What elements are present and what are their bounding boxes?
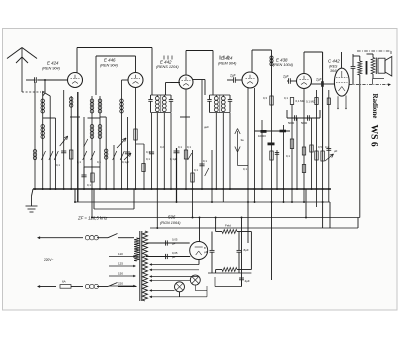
svg-text:364): 364) — [330, 69, 337, 73]
svg-text:3a: 3a — [241, 138, 245, 142]
svg-text:E 424: E 424 — [47, 61, 59, 66]
svg-text:(RENS 1204): (RENS 1204) — [156, 65, 179, 69]
svg-text:0,1: 0,1 — [286, 154, 290, 158]
svg-text:µF: µF — [204, 250, 208, 254]
svg-text:506: 506 — [168, 215, 176, 220]
svg-text:8µF: 8µF — [244, 248, 249, 252]
svg-text:0,1µF: 0,1µF — [170, 157, 177, 161]
svg-text:0,1: 0,1 — [178, 145, 182, 149]
svg-text:5000: 5000 — [288, 121, 295, 125]
svg-text:0,3: 0,3 — [263, 96, 267, 100]
svg-text:(REN 904): (REN 904) — [42, 67, 61, 71]
svg-text:125: 125 — [118, 262, 123, 266]
svg-text:0,1: 0,1 — [187, 145, 191, 149]
svg-text:0,1 MΩ: 0,1 MΩ — [306, 100, 315, 104]
svg-text:0,1: 0,1 — [87, 183, 91, 187]
svg-text:0,1: 0,1 — [243, 167, 247, 171]
svg-text:(REN 904): (REN 904) — [100, 64, 119, 68]
svg-text:0,2: 0,2 — [325, 145, 329, 149]
svg-text:220: 220 — [118, 282, 123, 286]
svg-text:10000: 10000 — [258, 134, 266, 138]
svg-text:(REM 904): (REM 904) — [218, 62, 237, 66]
svg-text:0,1: 0,1 — [284, 96, 288, 100]
svg-text:5000: 5000 — [301, 121, 308, 125]
svg-text:150: 150 — [118, 272, 123, 276]
svg-text:WS 6: WS 6 — [368, 125, 379, 147]
svg-text:0,1: 0,1 — [56, 163, 60, 167]
svg-text:220V~: 220V~ — [44, 258, 53, 262]
svg-text:0,1: 0,1 — [194, 168, 198, 172]
svg-text:2µF: 2µF — [229, 74, 237, 78]
svg-text:µF: µF — [334, 149, 338, 153]
svg-text:E 442: E 442 — [160, 60, 172, 65]
svg-text:2µF: 2µF — [282, 75, 290, 79]
svg-text:110: 110 — [118, 252, 123, 256]
svg-text:(REN 1004): (REN 1004) — [273, 63, 294, 67]
svg-text:0,1: 0,1 — [77, 160, 81, 164]
svg-text:E 438: E 438 — [276, 58, 288, 63]
svg-text:E 424: E 424 — [221, 56, 233, 61]
svg-text:2µF: 2µF — [315, 78, 323, 82]
svg-text:µµF: µµF — [204, 125, 209, 129]
svg-text:Feld: Feld — [225, 224, 231, 228]
svg-text:0,2: 0,2 — [160, 145, 164, 149]
svg-text:µF: µF — [172, 242, 176, 246]
svg-text:C 442: C 442 — [328, 59, 340, 64]
svg-text:0,1: 0,1 — [146, 157, 150, 161]
svg-text:6A: 6A — [62, 280, 66, 284]
svg-text:0,1: 0,1 — [203, 159, 207, 163]
svg-text:0,1: 0,1 — [97, 160, 101, 164]
svg-text:4µF: 4µF — [245, 279, 250, 283]
svg-text:0,1µF: 0,1µF — [122, 160, 129, 164]
svg-text:Radione: Radione — [371, 94, 379, 119]
svg-text:ZF = 128,5 kHz: ZF = 128,5 kHz — [77, 216, 108, 221]
svg-text:(RES: (RES — [329, 65, 338, 69]
svg-text:E 446: E 446 — [104, 58, 116, 63]
svg-text:0,1 MΩ: 0,1 MΩ — [296, 99, 305, 103]
svg-text:(RGN 1064): (RGN 1064) — [160, 221, 181, 225]
svg-text:0,1: 0,1 — [146, 150, 150, 154]
svg-text:0,5: 0,5 — [318, 145, 322, 149]
svg-text:µF: µF — [172, 255, 176, 259]
